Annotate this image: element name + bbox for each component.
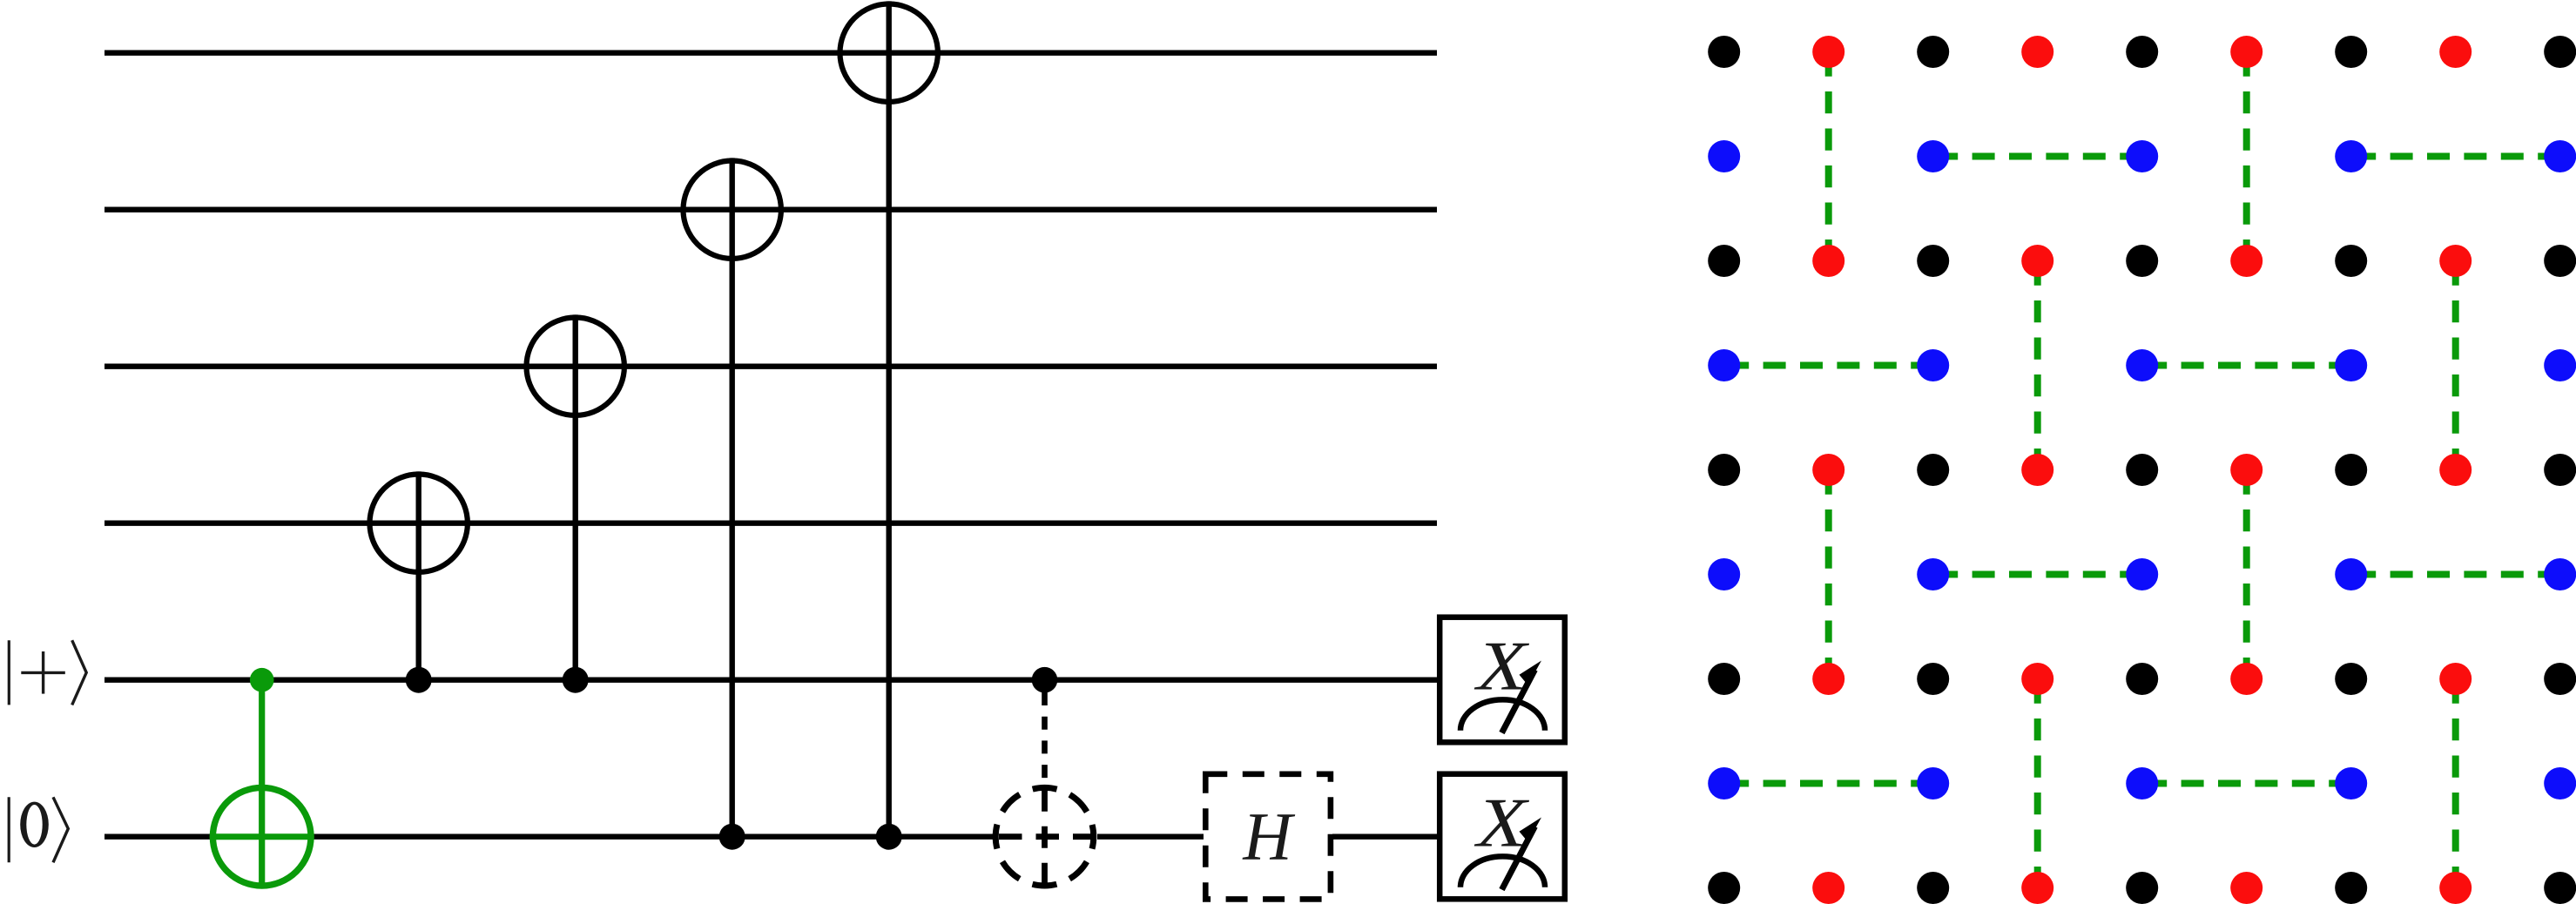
lattice row 8 ancilla dots (blue)	[1708, 767, 2576, 799]
CNOT gate (green) control q5	[250, 668, 274, 692]
CNOT gate 3 vertical wire	[730, 158, 735, 836]
CNOT gate 2 target circle on wire	[527, 318, 624, 415]
dashed CNOT target cross horizontal	[994, 833, 1097, 840]
lattice green link vertical col2 row5-row7	[1825, 470, 1832, 679]
lattice green link vertical col4 row7-row9	[2034, 679, 2041, 888]
svg-text:H: H	[1242, 799, 1295, 874]
CNOT gate 1 vertical wire	[416, 471, 421, 679]
CNOT gate 4 target circle on wire	[840, 4, 938, 102]
lattice green link horizontal row6 col3-col5	[1933, 571, 2142, 578]
lattice row 2 ancilla dots (blue)	[1708, 140, 2576, 172]
wire q3	[105, 364, 1437, 369]
label ket-plus	[9, 640, 86, 705]
CNOT gate 4 control dot	[876, 824, 902, 850]
lattice green link vertical col6 row1-row3	[2243, 52, 2250, 261]
lattice green link horizontal row6 col7-col9	[2351, 571, 2560, 578]
wire q6 segment 2	[1097, 834, 1204, 840]
dashed CNOT target cross vertical	[1042, 786, 1048, 887]
CNOT gate (green) vertical wire	[259, 680, 265, 887]
wire q6 segment 1b	[312, 834, 995, 840]
wire q5 ancilla |+>	[105, 678, 1437, 683]
CNOT gate 1 target circle on wire	[370, 475, 468, 572]
lattice row 4 ancilla dots (blue)	[1708, 349, 2576, 381]
lattice green link horizontal row4 col1-col3	[1724, 362, 1933, 369]
lattice green link vertical col6 row5-row7	[2243, 470, 2250, 679]
lattice green link horizontal row2 col7-col9	[2351, 153, 2560, 160]
measurement box X basis q6	[1440, 774, 1565, 900]
lattice row 3 data qubit dots	[1708, 245, 2576, 277]
lattice row 1 data qubit dots	[1708, 36, 2576, 68]
CNOT gate 1 control dot	[406, 667, 432, 693]
wire q2	[105, 206, 1437, 212]
lattice row 6 ancilla dots (blue)	[1708, 558, 2576, 590]
H gate dashed box	[1205, 774, 1331, 900]
lattice green link horizontal row2 col3-col5	[1933, 153, 2142, 160]
lattice green link horizontal row8 col1-col3	[1724, 780, 1933, 787]
CNOT gate 4 vertical wire	[887, 1, 892, 836]
lattice green link vertical col4 row3-row5	[2034, 261, 2041, 470]
label ket-zero	[9, 797, 68, 862]
CNOT gate 3 target circle on wire	[684, 161, 781, 259]
lattice green link vertical col2 row1-row3	[1825, 52, 1832, 261]
wire q1	[105, 51, 1437, 56]
lattice green link horizontal row8 col5-col7	[2142, 780, 2351, 787]
CNOT gate (green) target on q6	[210, 787, 314, 886]
lattice row 9 data qubit dots	[1708, 872, 2576, 904]
wire q6 segment 3	[1332, 834, 1437, 840]
wire q4	[105, 521, 1437, 526]
dashed CNOT vertical wire	[1042, 692, 1048, 785]
measurement box X basis q5	[1440, 617, 1565, 743]
lattice green link vertical col8 row7-row9	[2452, 679, 2459, 888]
CNOT gate 2 vertical wire	[573, 314, 578, 679]
lattice green link horizontal row4 col5-col7	[2142, 362, 2351, 369]
CNOT gate 3 control dot	[719, 824, 745, 850]
dashed CNOT target circle on q6	[995, 787, 1094, 886]
dashed CNOT control dot on q5	[1032, 667, 1058, 693]
CNOT gate 2 control dot	[563, 667, 589, 693]
wire q6 ancilla |0> segment 1	[105, 834, 212, 840]
lattice row 7 data qubit dots	[1708, 663, 2576, 695]
lattice green link vertical col8 row3-row5	[2452, 261, 2459, 470]
lattice row 5 data qubit dots	[1708, 454, 2576, 486]
